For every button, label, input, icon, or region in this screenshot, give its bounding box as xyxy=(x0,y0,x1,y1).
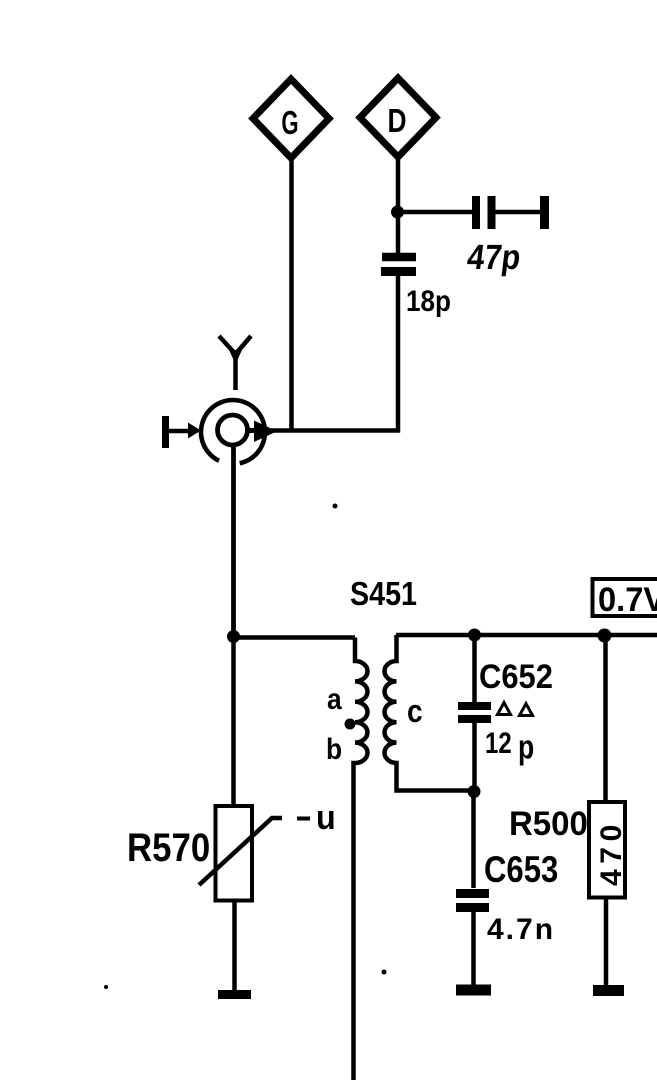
terminal left xyxy=(162,416,169,448)
svg-text:0.7V: 0.7V xyxy=(598,581,657,619)
svg-text:470: 470 xyxy=(595,819,628,886)
node D xyxy=(360,78,436,157)
coax connector inner circle xyxy=(218,415,248,445)
capacitor 18p xyxy=(381,257,416,272)
svg-text:b: b xyxy=(326,731,342,765)
wire R570 bottom xyxy=(232,900,237,992)
svg-text:S451: S451 xyxy=(350,575,417,612)
wire junction to primary xyxy=(233,635,355,640)
svg-text:R570: R570 xyxy=(127,825,210,870)
svg-text:47p: 47p xyxy=(465,238,523,277)
wire to 47p xyxy=(397,210,472,215)
svg-text:D: D xyxy=(387,103,406,139)
ground xyxy=(593,985,624,996)
capacitor C652 xyxy=(458,706,491,719)
tap dot xyxy=(345,719,356,730)
wire terminal to connector xyxy=(166,429,196,434)
VDR diagonal xyxy=(199,818,282,885)
trimmer mark triangles xyxy=(498,703,533,716)
resistor R500 xyxy=(589,802,628,898)
box 0.7V xyxy=(593,579,657,619)
ground xyxy=(456,985,491,996)
coax connector outer circle xyxy=(201,400,265,463)
svg-text:C653: C653 xyxy=(484,850,558,891)
wire G down xyxy=(289,158,294,432)
svg-text:12: 12 xyxy=(485,725,512,759)
wire C652 top xyxy=(472,635,477,703)
svg-text:G: G xyxy=(281,105,298,141)
junction node xyxy=(227,630,240,643)
svg-text:C652: C652 xyxy=(479,658,553,696)
wire connector to node xyxy=(247,428,262,433)
node G xyxy=(253,79,329,158)
antenna xyxy=(219,336,251,390)
wire C653 top xyxy=(471,792,476,888)
arrowhead out of connector xyxy=(254,421,277,443)
ground xyxy=(218,990,251,999)
wire 47p to terminal xyxy=(495,210,540,215)
capacitor C653 xyxy=(456,894,489,908)
wire R500 bottom xyxy=(604,898,609,990)
junction node xyxy=(391,206,404,219)
svg-text:c: c xyxy=(407,694,423,729)
svg-text:R500: R500 xyxy=(509,806,588,844)
label -u xyxy=(297,799,336,837)
svg-text:a: a xyxy=(327,681,342,715)
capacitor 47p xyxy=(476,196,492,229)
terminal right xyxy=(540,196,549,229)
wire 18p down xyxy=(396,276,401,433)
svg-text:u: u xyxy=(316,799,336,837)
arrowhead into connector xyxy=(188,423,201,439)
wire C653 to ground xyxy=(471,907,476,990)
transformer S451 secondary winding xyxy=(384,635,474,791)
wire C652 bottom xyxy=(472,722,477,792)
wire D down xyxy=(396,157,401,255)
wire R500 top xyxy=(603,635,608,802)
svg-text:p: p xyxy=(518,728,534,766)
junction node xyxy=(468,785,481,798)
junction node xyxy=(468,629,481,642)
svg-text:18p: 18p xyxy=(406,284,451,317)
wire secondary top to right edge xyxy=(396,633,657,638)
svg-text:4.7n: 4.7n xyxy=(487,913,555,946)
wire connector down xyxy=(231,445,236,637)
resistor R570 xyxy=(216,806,253,901)
wire R570 top xyxy=(231,637,236,806)
junction node xyxy=(598,629,612,643)
wire antenna node horizontal xyxy=(262,428,400,433)
transformer S451 primary winding xyxy=(354,638,368,1080)
